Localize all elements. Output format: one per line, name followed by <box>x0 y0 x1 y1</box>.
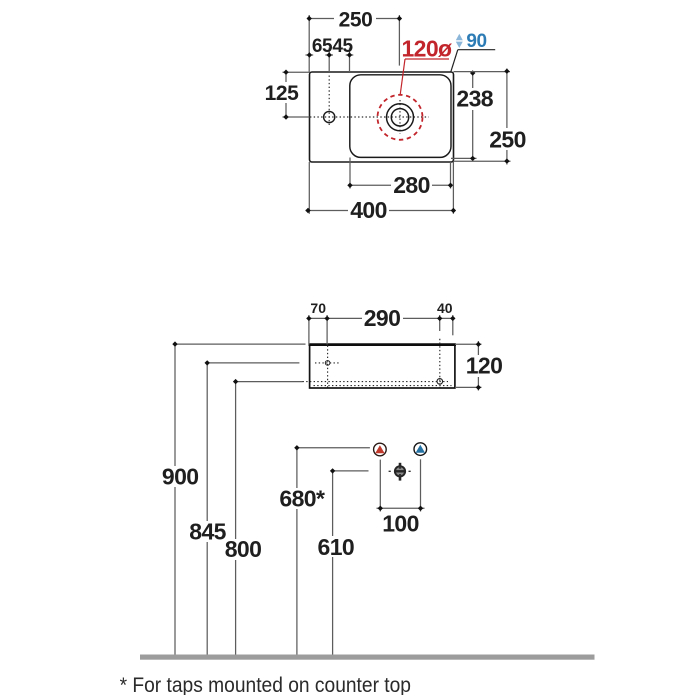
svg-text:120ø: 120ø <box>401 35 452 61</box>
svg-text:120: 120 <box>466 353 503 379</box>
svg-text:125: 125 <box>265 82 300 105</box>
svg-text:680*: 680* <box>279 485 325 511</box>
mixer symbol <box>389 463 412 481</box>
svg-text:45: 45 <box>332 36 353 57</box>
basin outline (top view) <box>310 72 454 162</box>
svg-text:800: 800 <box>225 536 262 562</box>
dimension 70 290 40 <box>306 300 455 345</box>
drain outer circle <box>387 104 414 131</box>
svg-text:90: 90 <box>466 31 486 52</box>
dimension 250 far right <box>454 69 528 165</box>
svg-text:250: 250 <box>489 126 526 152</box>
leader 90 <box>451 50 495 72</box>
height line 610 <box>315 468 369 654</box>
dimension 400 bottom <box>305 162 456 223</box>
dimension 125 left <box>263 70 310 120</box>
hidden bottom line (side) <box>314 385 452 387</box>
svg-text:70: 70 <box>310 300 326 316</box>
hidden drain circle (side) <box>437 379 443 385</box>
svg-text:400: 400 <box>350 197 387 223</box>
svg-text:900: 900 <box>162 464 199 490</box>
centerline tap vertical dotted <box>328 76 330 128</box>
drain hole 120 dashed circle <box>378 95 423 140</box>
svg-text:250: 250 <box>339 8 373 31</box>
dimension 250 top <box>307 6 403 72</box>
svg-text:40: 40 <box>437 300 453 316</box>
height line 845 <box>187 360 299 654</box>
svg-text:100: 100 <box>382 511 419 537</box>
height line 800 <box>223 379 448 655</box>
leader 120o red <box>400 59 449 95</box>
drain inner circle <box>391 109 408 126</box>
svg-text:65: 65 <box>312 36 333 57</box>
dimension 65 45 ticks <box>306 36 354 72</box>
dimension 238 right <box>451 70 494 161</box>
hidden drain centerline (side) <box>439 339 441 388</box>
svg-text:290: 290 <box>364 305 401 331</box>
hidden tap cross (side) <box>315 361 339 366</box>
height line 680 <box>278 445 370 654</box>
dimension 120 side <box>455 341 505 391</box>
bowl outline (inner rounded rect) <box>350 75 451 158</box>
height line 900 <box>160 341 306 654</box>
hot tap symbol (red) <box>374 443 387 456</box>
svg-text:610: 610 <box>318 534 355 560</box>
svg-text:* For taps mounted on counter: * For taps mounted on counter top <box>120 674 411 695</box>
tap hole <box>324 111 335 122</box>
svg-text:238: 238 <box>456 86 493 112</box>
svg-text:845: 845 <box>189 518 226 544</box>
side view body <box>309 345 457 389</box>
cold tap symbol (blue) <box>414 443 427 456</box>
hidden tap centerline (side) <box>327 346 329 388</box>
centerline horizontal dotted <box>310 116 429 118</box>
blue arrow 90 <box>456 34 463 48</box>
centerline drain vertical dotted <box>399 100 401 134</box>
dimension 280 bottom <box>347 158 453 199</box>
dimension 100 <box>377 459 425 536</box>
svg-text:280: 280 <box>393 172 430 198</box>
floor line <box>140 655 595 660</box>
